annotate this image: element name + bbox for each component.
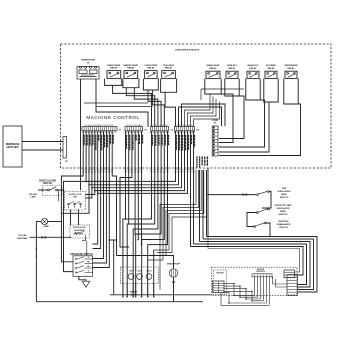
wire P4 bundle left-runs [64,131,176,272]
wire staircase left-relay rails to P3/P4 [113,85,152,126]
svg-text:SWITCHES: SWITCHES [6,147,19,149]
bottom bus [36,301,203,303]
door lock solenoid [70,225,90,256]
svg-text:DISPLACED: DISPLACED [278,190,291,193]
wire P1 drop bundle [61,131,83,262]
wire P4 feeds from right [185,94,211,127]
connector P8 membrane [63,137,67,159]
wire long vertical x208 [207,168,209,237]
svg-text:RELAY: RELAY [147,66,155,69]
wire motor control pin drops [254,277,256,296]
relay K6 SPIN RLY [226,65,238,78]
ground symbol [79,276,86,281]
svg-text:UNBALANCE: UNBALANCE [277,223,291,226]
wire thermostat left lead [80,79,82,190]
wire harness loop 4 [194,244,307,285]
svg-text:THERMOSTAT: THERMOSTAT [81,59,96,62]
svg-text:HEAT: HEAT [281,193,287,196]
wire harness loop 5 [191,247,304,276]
wire staircase lower horizontals [96,106,153,108]
relay K7 WASH RLY [247,64,259,78]
svg-text:NEUTRAL: NEUTRAL [17,237,28,240]
wire inner link [208,237,300,272]
wire harness loop 3 [200,242,311,288]
P3 wire labels [153,135,169,146]
P4 wire labels [177,135,195,151]
wire lock box to solenoid [70,210,72,225]
svg-text:BAKE TEMP: BAKE TEMP [107,64,120,67]
svg-text:HEAT: HEAT [280,210,286,213]
wire tub sw to front sw [262,192,271,209]
door closed switch S1 [39,180,62,195]
svg-text:RELAY: RELAY [110,66,118,69]
wire drain pump drop [173,277,175,302]
pressure switch [70,254,93,276]
wire right-relay drops to connector P5 [219,94,233,143]
membrane switches box [3,126,22,167]
svg-text:RELAY: RELAY [165,66,173,69]
svg-text:ABCDEFGHJKLMA: ABCDEFGHJKLMA [150,131,170,134]
svg-text:WATER: WATER [130,291,138,294]
wire relay K3 U-loop [143,79,158,90]
svg-text:MOTOR: MOTOR [216,273,224,275]
wire P1 risers to pressure switch [93,131,98,244]
svg-text:WATER TEMP: WATER TEMP [124,64,139,67]
relay K2 WATER TEMP [124,64,139,79]
svg-text:RELAY: RELAY [267,67,275,70]
motor control connector lower [287,275,297,296]
drain pump M2 [167,263,181,278]
relay K1 BAKE TEMP [107,64,121,79]
wire lamp connections [48,221,62,223]
relay K5 WASH HEAT [206,64,220,78]
svg-text:CONTROL: CONTROL [256,271,266,273]
connector P1 [82,124,122,134]
wire motor harness link to stack [273,277,288,284]
svg-text:DRAIN PUMP: DRAIN PUMP [167,263,181,266]
P5 lower wire labels [197,157,207,168]
wire mid-left maze extras [120,178,129,248]
console dashed enclosure [61,44,332,168]
svg-text:RELAY: RELAY [127,66,135,69]
wire P2 drops to water valve [125,131,127,219]
svg-text:DISPLACED: DISPLACED [277,207,290,210]
wire lower-left links [110,294,212,296]
wire harness loop 2 [203,239,314,290]
wire line to door switch [38,189,48,191]
svg-text:TUB: TUB [282,188,287,190]
wire motor lower loops [224,293,267,303]
svg-text:MACHINE CONTROL: MACHINE CONTROL [86,115,139,120]
svg-text:SW: SW [73,197,76,199]
wire door switch to lock box [57,189,64,191]
connector P2 [125,124,148,134]
svg-text:120 VAC: 120 VAC [18,234,27,237]
svg-text:FRONT RT UNIT: FRONT RT UNIT [275,205,292,207]
front rt unit displaced heat switch [257,205,292,216]
svg-text:OVEN SERVICE RELAYS: OVEN SERVICE RELAYS [175,49,200,52]
tub displaced heat switch [257,188,291,199]
wire harness loop 1 [207,237,318,293]
svg-text:SWITCH: SWITCH [279,227,288,229]
wire neutral bus vertical [35,222,37,302]
thermostat TH1 [77,59,99,80]
wire right-relay U-loops [205,79,221,94]
svg-text:BLCH: BLCH [147,271,152,273]
wire drain pump feed [117,256,174,269]
wire relay K1 U-loop [105,79,122,86]
wire right-relay link bus [201,88,244,90]
wire valve terminal dots [122,283,124,297]
wire unbalance sw out [207,223,271,237]
svg-text:120 VAC: 120 VAC [29,193,38,196]
wire neutral feed [30,236,72,238]
water valve box [121,267,159,296]
svg-text:RELAY: RELAY [287,67,295,70]
door lock switch box [65,192,86,211]
P1 wire labels [84,135,113,151]
svg-text:RELAY: RELAY [249,67,257,70]
wire P3 cascade to water valve [123,131,152,297]
svg-text:1234567890AB1: 1234567890AB1 [151,124,168,127]
svg-text:1234567890AB1234567890: 1234567890AB1234567890 [85,124,114,127]
svg-text:WASH HEAT: WASH HEAT [207,64,221,67]
wire P5 risers to P4 [179,107,222,127]
wire pressure risers [93,243,97,245]
svg-text:LAMP: LAMP [43,225,49,228]
svg-text:VERTICAL: VERTICAL [278,220,290,223]
svg-text:COLD: COLD [137,271,143,273]
wire bundle A sources [190,131,192,247]
connector P4 [174,124,200,134]
lamp DS1 [41,218,49,228]
motor assembly dashed box [212,267,298,296]
wire stair from P5 labels down-left [160,170,196,290]
svg-text:TUB HEAT: TUB HEAT [163,64,175,67]
svg-text:SWITCH: SWITCH [280,197,289,199]
relay K9 DETERGENT [284,65,298,78]
svg-text:1234567890AB: 1234567890AB [126,124,143,127]
svg-text:WASH RLY: WASH RLY [247,64,259,67]
relay K8 BLOWER [265,65,277,78]
wire feed to tub switch [208,194,256,196]
svg-text:DOOR CLOSED: DOOR CLOSED [39,180,56,182]
svg-text:RELAY: RELAY [209,67,217,70]
wire relay K2 U-loop [123,79,139,88]
wire membrane to connector [22,141,63,143]
wire relay K4 U-loop [161,79,177,93]
connector P5 CONN [212,120,218,156]
motor dashed box [213,270,227,294]
svg-text:MEMBRANE: MEMBRANE [6,143,20,146]
svg-text:SWITCH: SWITCH [279,214,288,216]
motor control pin row [252,274,272,277]
svg-text:ABCDEFGHJKLMABCDEFGHJK: ABCDEFGHJKLMABCDEFGHJK [83,131,117,134]
P2 wire labels [127,135,143,151]
svg-text:SWITCH: SWITCH [43,183,52,185]
connector P3 [150,124,174,134]
wire front sw to unbalance sw [247,213,257,227]
motor control connector upper [284,270,295,278]
svg-text:1234567890AB12: 1234567890AB12 [175,124,194,127]
wire motor stair harness [224,284,255,296]
wire thermostat right lead [96,79,148,127]
relay K3 OVEN TEMP [144,65,157,79]
svg-text:LINE: LINE [31,197,37,199]
wire connector chevrons below border [82,169,194,173]
vertical unbalance switch [254,220,291,229]
svg-text:RELAY: RELAY [228,67,236,70]
relay K4 TUB HEAT [162,64,176,79]
svg-text:ABCDEFGHJKLM: ABCDEFGHJKLM [125,131,144,134]
